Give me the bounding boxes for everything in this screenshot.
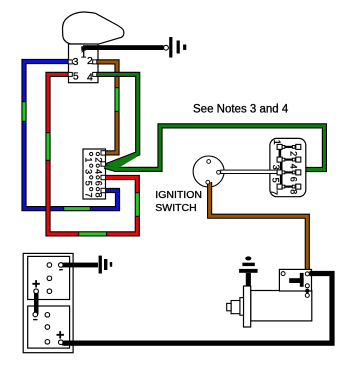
starter step <box>240 298 244 316</box>
svg-text:7: 7 <box>269 190 279 195</box>
black cable: solenoid to battery positive <box>64 274 332 344</box>
brown wire: switch to solenoid <box>210 182 308 272</box>
ground symbol (top) <box>169 37 186 58</box>
ground symbol (battery) <box>99 256 113 274</box>
battery 1 negative terminal <box>59 263 64 271</box>
svg-text:4: 4 <box>87 71 93 83</box>
battery 2 cell caps <box>45 313 50 345</box>
fuse block pin 6 pad <box>101 175 106 179</box>
svg-text:See Notes 3 and 4: See Notes 3 and 4 <box>193 103 289 115</box>
svg-text:SWITCH: SWITCH <box>155 202 196 214</box>
key switch pin 1 pad (black) <box>81 46 85 50</box>
wire red: key pin5 to block pin6 <box>48 74 137 234</box>
solenoid box <box>279 269 311 291</box>
svg-text:5: 5 <box>271 178 281 183</box>
key head (ignition key blob) <box>63 12 124 44</box>
svg-text:6: 6 <box>94 181 104 186</box>
green tracer dash on red left vertical <box>47 132 50 161</box>
green tracer dash on red right vertical <box>136 192 139 217</box>
svg-text:2: 2 <box>289 151 299 156</box>
fuse block pin circles and rotated labels <box>90 152 100 190</box>
svg-text:2: 2 <box>87 55 93 67</box>
solenoid T bar <box>289 273 303 287</box>
ground terminal circle <box>164 45 169 50</box>
key switch pin 4 pad <box>93 72 97 76</box>
svg-text:8: 8 <box>94 192 104 197</box>
svg-text:4: 4 <box>289 164 299 169</box>
battery negative wire to ground <box>62 263 98 268</box>
battery positive cable to starter <box>62 341 334 346</box>
starter end flange <box>244 286 251 327</box>
key switch pin labels <box>73 49 93 84</box>
key switch pin 5 pad <box>68 72 72 76</box>
starter terminal stud stack <box>239 256 258 285</box>
svg-text:8: 8 <box>288 189 298 194</box>
svg-text:7: 7 <box>83 192 93 197</box>
fuse block connector box <box>83 149 106 199</box>
key switch pin 2 pad <box>93 60 97 64</box>
link bracket rows1-2 <box>279 148 282 158</box>
battery 2 negative terminal <box>33 312 38 320</box>
ground wire from key pin 1 <box>83 45 164 50</box>
starter motor body <box>251 291 312 321</box>
battery bottom cell <box>28 306 70 348</box>
starter shaft <box>231 301 240 314</box>
battery 1 positive terminal <box>32 280 39 293</box>
svg-text:3: 3 <box>271 165 281 170</box>
green tracer dash on blue vertical <box>23 101 26 122</box>
wire green: key pin4 to block pin4 (with diagonal) <box>97 74 138 165</box>
fuse block pin 4 pad <box>101 162 106 166</box>
svg-text:1: 1 <box>272 140 282 145</box>
ignition switch mount hole (top) <box>207 160 211 164</box>
svg-text:5: 5 <box>73 71 79 83</box>
ignition switch connector (rounded) <box>270 138 306 196</box>
svg-text:1: 1 <box>83 157 93 162</box>
svg-text:3: 3 <box>83 169 93 174</box>
battery top cell <box>28 256 70 299</box>
green tracer dash on blue bottom <box>63 207 91 210</box>
svg-text:IGNITION: IGNITION <box>155 189 202 201</box>
solenoid terminal (lower 2) <box>305 293 309 297</box>
fuse block pin 2 pad <box>101 151 106 155</box>
svg-text:5: 5 <box>83 181 93 186</box>
solenoid terminal (left) <box>281 272 285 276</box>
wire brown: key pin2 to block pin2 <box>97 62 117 153</box>
link rows2-3 <box>280 161 283 171</box>
battery outer case <box>23 253 73 352</box>
link rows3-4 <box>280 175 283 185</box>
fuse block pin 8 pad <box>101 188 106 192</box>
wire blue: key pin3 to block pin8 <box>24 62 118 209</box>
starter nose <box>227 303 231 310</box>
ignition switch mount hole (right) <box>217 170 221 174</box>
svg-text:1: 1 <box>81 49 87 61</box>
wire green: block pin4 to ignition switch connector (See Notes loop) <box>105 126 325 170</box>
switch actuator rod <box>221 170 277 173</box>
ignition switch connector terminals <box>277 144 301 189</box>
green tracer dash on brown vertical <box>116 87 119 112</box>
svg-text:6: 6 <box>289 177 299 182</box>
solenoid terminal junction (filled) <box>305 289 309 293</box>
series link between cells <box>34 291 39 314</box>
key switch pin 3 pad <box>68 60 72 64</box>
svg-text:3: 3 <box>73 56 79 68</box>
ignition switch body (rear view circle) <box>193 156 224 187</box>
green tracer dash on red bottom <box>78 232 107 235</box>
solenoid terminal (lower 1) <box>305 284 309 288</box>
battery 1 cell caps <box>47 263 52 294</box>
ignition key switch connector box <box>69 44 99 83</box>
terminal rows <box>277 144 301 149</box>
solenoid terminal (battery/ignition node) <box>305 272 309 276</box>
battery 2 positive terminal <box>57 331 64 344</box>
ignition switch terminal (bottom, brown wire) <box>206 180 210 184</box>
ignition connector pin labels <box>269 140 299 195</box>
svg-text:4: 4 <box>94 169 104 174</box>
svg-text:2: 2 <box>94 157 104 162</box>
